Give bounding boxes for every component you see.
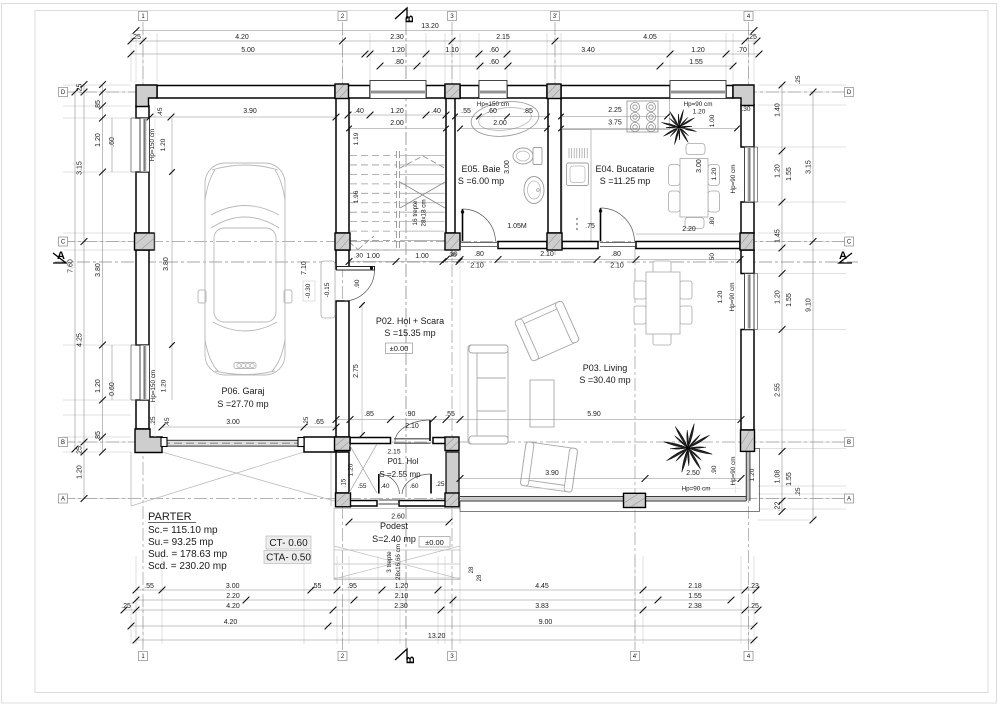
svg-text:A: A [57,250,65,262]
svg-text:2.20: 2.20 [682,226,696,233]
svg-text:.85: .85 [95,431,102,441]
svg-text:S =30.40 mp: S =30.40 mp [579,375,630,385]
svg-text:.25: .25 [150,416,157,425]
svg-text:3.75: 3.75 [608,120,622,127]
svg-text:9.00: 9.00 [539,619,553,626]
svg-text:A: A [847,497,851,503]
svg-text:.80: .80 [394,59,404,66]
svg-text:C: C [847,240,852,246]
svg-text:.45: .45 [164,417,171,426]
svg-text:4.25: 4.25 [77,333,84,347]
svg-text:Hp=150 cm: Hp=150 cm [477,101,509,108]
svg-text:.90: .90 [711,465,718,474]
svg-text:.25: .25 [795,75,802,84]
svg-text:-0.30: -0.30 [305,283,312,298]
svg-text:4.05: 4.05 [643,34,657,41]
svg-text:.40: .40 [380,483,389,490]
svg-text:3.83: 3.83 [535,603,549,610]
svg-text:.45: .45 [157,107,164,116]
svg-text:.23: .23 [749,583,759,590]
svg-text:3.00: 3.00 [504,160,511,174]
svg-text:P01. Hol: P01. Hol [388,457,419,466]
svg-text:.25: .25 [77,84,84,94]
svg-text:.55: .55 [357,483,366,490]
svg-text:S =15.35 mp: S =15.35 mp [384,328,435,338]
svg-text:1.00: 1.00 [366,253,380,260]
svg-text:2.30: 2.30 [394,603,408,610]
svg-text:1.20: 1.20 [749,468,756,481]
svg-text:.80: .80 [474,251,484,258]
svg-text:Hp=150 cm: Hp=150 cm [149,129,156,161]
svg-text:28x18 cm: 28x18 cm [421,199,428,226]
svg-text:2.18: 2.18 [688,583,702,590]
svg-text:.55: .55 [445,411,455,418]
svg-text:.85: .85 [364,411,374,418]
svg-text:C: C [61,240,66,246]
svg-text:1.20: 1.20 [693,109,706,116]
svg-text:CTA- 0.50: CTA- 0.50 [266,553,311,564]
svg-text:.90: .90 [354,279,361,288]
svg-text:1.20: 1.20 [390,108,404,115]
svg-text:1.20: 1.20 [775,290,782,304]
svg-text:2.10: 2.10 [395,593,409,600]
svg-text:4.20: 4.20 [224,619,238,626]
svg-text:.25: .25 [131,34,141,41]
svg-text:1.20: 1.20 [391,47,405,54]
svg-text:1.00: 1.00 [415,253,429,260]
svg-text:1.55: 1.55 [688,593,702,600]
svg-text:1.05M: 1.05M [507,223,527,230]
svg-text:1.08: 1.08 [775,470,782,484]
svg-text:S =6.00 mp: S =6.00 mp [458,176,504,186]
svg-text:1.55: 1.55 [689,59,703,66]
svg-text:1.19: 1.19 [353,132,360,145]
svg-text:1.20: 1.20 [395,583,409,590]
svg-text:.25: .25 [77,446,84,456]
svg-text:16 trepte: 16 trepte [412,200,419,225]
svg-text:3.90: 3.90 [545,470,559,477]
svg-text:B: B [404,15,416,23]
svg-text:2.75: 2.75 [353,364,360,378]
svg-text:1.45: 1.45 [775,229,782,243]
svg-text:2.10: 2.10 [610,263,624,270]
svg-text:Sc.= 115.10 mp: Sc.= 115.10 mp [148,525,218,536]
svg-text:2.10: 2.10 [540,251,554,258]
svg-text:.60: .60 [487,108,497,115]
svg-text:28: 28 [469,566,475,573]
svg-text:1.55: 1.55 [786,472,793,486]
svg-text:.95: .95 [347,583,357,590]
svg-text:.25: .25 [435,481,444,488]
svg-text:CT- 0.60: CT- 0.60 [269,538,308,549]
svg-text:Podest: Podest [380,521,409,531]
svg-text:±0.00: ±0.00 [425,538,444,547]
svg-text:5.00: 5.00 [241,47,255,54]
svg-text:3.00: 3.00 [226,583,240,590]
svg-text:.50: .50 [709,253,716,262]
svg-text:13.20: 13.20 [428,633,446,640]
svg-text:2.38: 2.38 [688,603,702,610]
svg-text:3.00: 3.00 [226,419,240,426]
svg-text:9.10: 9.10 [806,298,813,312]
svg-text:1.20: 1.20 [77,465,84,479]
svg-text:2.00: 2.00 [390,120,404,127]
svg-text:1.20: 1.20 [348,463,355,476]
svg-text:A: A [839,250,847,262]
svg-text:Hp=90 cm: Hp=90 cm [682,486,711,493]
svg-text:Hp=150 cm: Hp=150 cm [150,370,157,402]
svg-text:.25: .25 [304,416,310,425]
svg-text:Hp=90 cm: Hp=90 cm [730,457,737,486]
svg-text:±0.00: ±0.00 [390,344,409,353]
svg-text:A: A [61,497,65,503]
svg-text:Hp=90 cm: Hp=90 cm [729,283,736,312]
svg-text:1.00: 1.00 [709,114,716,127]
svg-text:Su.= 93.25 mp: Su.= 93.25 mp [148,537,214,548]
svg-text:Sud. = 178.63 mp: Sud. = 178.63 mp [148,549,228,560]
svg-text:D: D [847,90,852,96]
svg-text:.25: .25 [749,603,759,610]
svg-text:.70: .70 [737,47,747,54]
svg-text:.40: .40 [354,108,364,115]
svg-text:.30: .30 [447,252,456,259]
svg-text:1.55: 1.55 [786,293,793,307]
svg-text:Hp=90 cm: Hp=90 cm [684,101,713,108]
svg-text:S =11.25 mp: S =11.25 mp [600,176,651,186]
svg-text:.85: .85 [523,108,533,115]
svg-text:D: D [61,90,66,96]
svg-text:.60: .60 [409,483,418,490]
svg-text:.55: .55 [144,583,154,590]
svg-text:B: B [61,440,65,446]
svg-text:.40: .40 [431,108,441,115]
svg-text:1.40: 1.40 [775,103,782,117]
svg-text:2.15: 2.15 [387,449,400,456]
svg-text:.60: .60 [109,137,116,147]
svg-text:S =2.55 mp: S =2.55 mp [379,470,421,479]
svg-text:.60: .60 [489,47,499,54]
svg-text:3.40: 3.40 [581,47,595,54]
svg-text:1.20: 1.20 [160,138,167,151]
svg-text:1.96: 1.96 [353,190,360,203]
svg-text:E05. Baie: E05. Baie [461,164,500,174]
svg-text:2.60: 2.60 [391,514,405,521]
svg-text:4': 4' [633,654,637,660]
svg-text:3': 3' [553,14,557,20]
svg-text:1.20: 1.20 [95,379,102,393]
svg-text:4.45: 4.45 [535,583,549,590]
svg-text:-0.15: -0.15 [324,282,331,297]
svg-text:4.20: 4.20 [235,34,249,41]
svg-text:3.80: 3.80 [163,257,170,271]
svg-text:P02. Hol + Scara: P02. Hol + Scara [376,316,444,326]
svg-text:1.20: 1.20 [717,290,724,303]
svg-text:0.60: 0.60 [109,382,116,396]
svg-text:PARTER: PARTER [148,511,192,523]
svg-text:3.15: 3.15 [77,161,84,175]
svg-text:3.00: 3.00 [696,159,703,173]
svg-text:.25: .25 [795,487,802,496]
svg-text:Hp=90 cm: Hp=90 cm [730,165,737,194]
svg-text:1.55: 1.55 [786,167,793,181]
svg-text:.22: .22 [775,502,782,512]
svg-text:.85: .85 [95,100,102,110]
svg-text:4.20: 4.20 [226,603,240,610]
svg-text:.80: .80 [709,217,716,226]
svg-text:.55: .55 [461,108,471,115]
svg-text:.15: .15 [342,478,348,487]
svg-text:.90: .90 [406,411,416,418]
svg-text:.55: .55 [312,583,322,590]
svg-text:.75: .75 [585,223,595,230]
svg-text:1.20: 1.20 [95,133,102,147]
svg-text:.60: .60 [489,59,499,66]
svg-text:28: 28 [477,574,483,581]
svg-text:.80: .80 [611,251,621,258]
svg-text:.65: .65 [314,419,324,426]
svg-text:2.20: 2.20 [226,593,240,600]
svg-text:3.15: 3.15 [806,160,813,174]
svg-text:S=2.40 mp: S=2.40 mp [372,534,416,544]
svg-text:7.60: 7.60 [68,259,75,273]
svg-text:P03. Living: P03. Living [583,363,628,373]
svg-text:28x16,66 cm: 28x16,66 cm [395,544,402,580]
svg-text:B: B [405,656,417,664]
svg-text:2.10: 2.10 [405,423,419,430]
svg-text:.30: .30 [354,253,363,260]
svg-text:2.25: 2.25 [608,107,622,114]
svg-text:7.10: 7.10 [301,261,308,275]
svg-text:Scd. = 230.20 mp: Scd. = 230.20 mp [148,561,227,572]
svg-text:P06. Garaj: P06. Garaj [221,386,264,396]
svg-text:.30: .30 [741,106,750,113]
svg-text:2.50: 2.50 [686,470,700,477]
svg-text:1.10: 1.10 [445,47,459,54]
svg-text:13.20: 13.20 [421,23,439,30]
svg-text:3.90: 3.90 [243,108,257,115]
svg-text:S =27.70 mp: S =27.70 mp [217,399,268,409]
svg-text:5.90: 5.90 [587,411,601,418]
svg-text:1.20: 1.20 [775,164,782,178]
svg-text:1.20: 1.20 [161,379,168,392]
svg-text:E04. Bucatarie: E04. Bucatarie [595,164,654,174]
svg-text:B: B [847,440,851,446]
svg-text:.25: .25 [747,34,757,41]
svg-text:2.30: 2.30 [390,34,404,41]
svg-text:.25: .25 [121,603,131,610]
svg-text:1.20: 1.20 [691,47,705,54]
svg-text:3 trepte: 3 trepte [386,551,393,573]
svg-text:2.10: 2.10 [470,263,484,270]
svg-text:2.15: 2.15 [496,34,510,41]
svg-text:2.00: 2.00 [493,120,507,127]
svg-text:3.80: 3.80 [95,263,102,277]
svg-text:1.20: 1.20 [711,167,718,180]
svg-text:2.55: 2.55 [775,383,782,397]
